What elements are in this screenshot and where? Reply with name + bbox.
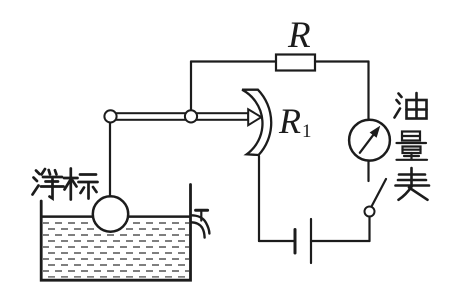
wire: switch down to bottom-right corner [368, 217, 370, 242]
wire: meter down to switch fixed contact [367, 161, 369, 181]
wire: pivot terminal up to top junction [190, 62, 192, 112]
wire: bottom-left corner up to potentiometer R1 [258, 156, 260, 241]
label 浮标 (float) [33, 169, 98, 200]
drain tap handle [200, 212, 202, 221]
label R1 (value label for potentiometer R1) [279, 103, 311, 139]
pivot terminal circle (wiper contact) [185, 110, 197, 122]
wire: top junction to resistor R [191, 60, 276, 62]
liquid hatching [43, 220, 189, 278]
标 [64, 177, 78, 180]
float [93, 196, 128, 231]
浮 [36, 171, 40, 175]
tank [41, 185, 190, 281]
resistor R [276, 55, 315, 71]
switch S lever [372, 179, 387, 207]
wiper arrowhead of R1 [248, 109, 261, 125]
label 表 [396, 168, 430, 200]
wire: bottom-right corner to battery positive plate [311, 240, 370, 242]
lever arm (wiper shaft) [110, 113, 248, 120]
float rod [109, 121, 111, 197]
label 油 [395, 93, 427, 119]
battery negative plate (short) [294, 230, 297, 254]
meter M (fuel gauge) [349, 120, 390, 161]
drain tap spout [191, 215, 209, 233]
wire: resistor R to top-right corner [315, 60, 369, 62]
label 量 [397, 132, 428, 160]
label R (value label for resistor R) [288, 17, 311, 54]
switch S pivot terminal [365, 207, 375, 217]
wire: top-right corner down to meter [367, 62, 369, 121]
lever left joint circle [104, 110, 116, 122]
liquid surface [42, 215, 189, 218]
potentiometer R1 track (curved arc) [242, 90, 271, 155]
wire: battery negative to bottom-left corner [259, 240, 295, 242]
battery positive plate (long) [310, 219, 312, 263]
